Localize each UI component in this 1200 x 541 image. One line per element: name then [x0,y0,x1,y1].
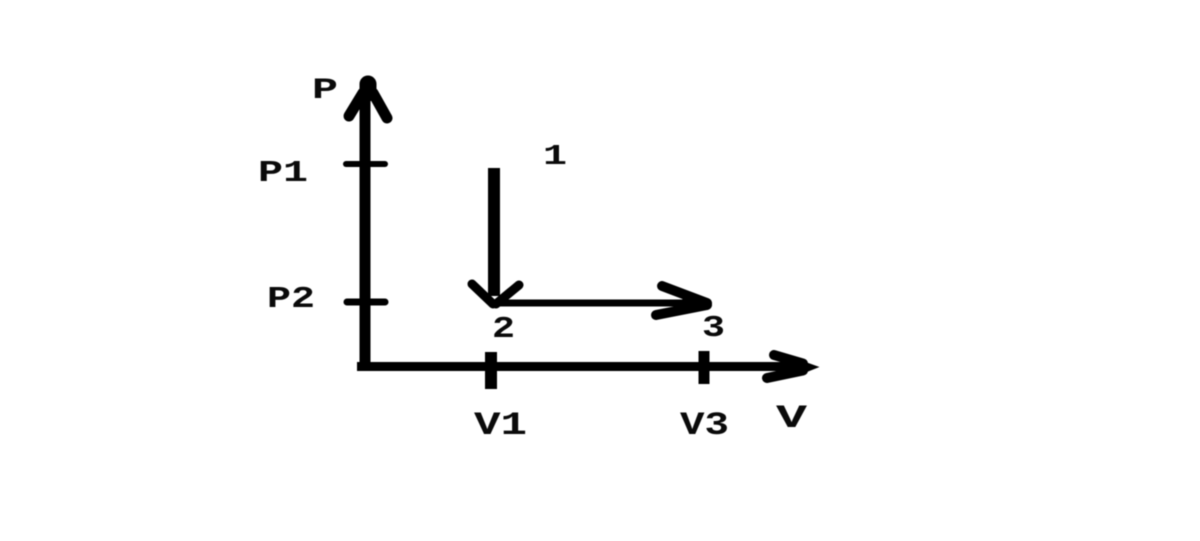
svg-text:V3: V3 [680,407,729,444]
svg-text:2: 2 [492,312,515,347]
svg-text:P: P [312,74,338,108]
svg-text:P2: P2 [267,282,315,317]
svg-text:V1: V1 [474,407,527,444]
svg-text:3: 3 [702,311,725,346]
svg-text:1: 1 [543,140,567,173]
svg-text:P1: P1 [258,156,308,191]
svg-text:V: V [776,400,808,437]
